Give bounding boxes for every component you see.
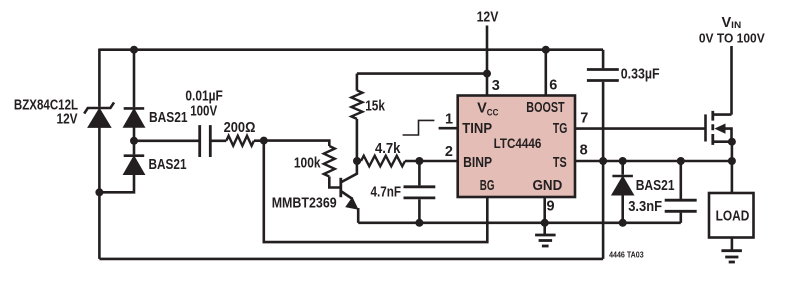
junction: BOOST to top rail <box>542 46 550 54</box>
transistor MMBT2369 <box>341 161 357 200</box>
svg-text:BAS21: BAS21 <box>149 157 187 173</box>
svg-text:LTC4446: LTC4446 <box>494 136 542 151</box>
gate bar <box>704 114 707 141</box>
svg-text:3: 3 <box>492 78 500 94</box>
wire BOOST pin6 stub <box>544 50 547 96</box>
wire mid node to 0.01uF <box>134 140 200 143</box>
svg-text:GND: GND <box>533 178 563 194</box>
wire BAS21 D2 stub top <box>133 141 136 155</box>
ground symbol (LOAD) <box>721 251 742 262</box>
svg-text:VIN: VIN <box>722 15 742 31</box>
transistor Q1: MOSFET <box>706 111 732 145</box>
svg-text:TINP: TINP <box>462 121 492 137</box>
node B: 200ohm / 100k / BG <box>260 137 268 145</box>
wire MOSFET source to TS <box>731 142 734 161</box>
wire left vertical (zener to bottom node) <box>98 126 101 192</box>
junction: 3.3nF to TS line <box>677 157 685 165</box>
svg-text:0.01µF: 0.01µF <box>185 88 223 104</box>
junction: 4.7k / 4.7nF / BINP <box>415 157 423 165</box>
junction: 4.7nF bottom to ground line <box>415 219 423 227</box>
wire LOAD top stub <box>731 161 734 193</box>
node A: between BAS21 diodes to 0.01uF <box>130 137 138 145</box>
junction: zener anode / D2 anode <box>95 188 103 196</box>
step waveform symbol (TINP input) <box>403 120 435 135</box>
capacitor 0.33uF <box>587 70 619 81</box>
wire 3.3nF bottom stub <box>679 213 682 223</box>
MOSFET body arrowhead <box>714 124 725 134</box>
svg-text:100k: 100k <box>294 155 321 171</box>
wire BAS21 D3 bottom stub <box>621 194 624 223</box>
junction: 15k / 4.7k / collector <box>353 157 361 165</box>
resistor 200ohm <box>226 136 254 146</box>
svg-text:0.33µF: 0.33µF <box>621 67 660 83</box>
junction: MOSFET source tab <box>728 138 736 146</box>
wire right vertical (0.33uF / TS / bottom) <box>602 50 605 259</box>
resistor 4.7k <box>361 156 405 167</box>
LOAD box <box>709 193 754 238</box>
svg-text:BAS21: BAS21 <box>636 178 675 194</box>
resistor 100k <box>324 146 335 177</box>
junction: D3 cathode to TS line <box>619 157 627 165</box>
svg-text:200Ω: 200Ω <box>224 120 256 136</box>
wire 4.7k left stub <box>357 160 361 163</box>
svg-text:2: 2 <box>445 144 453 160</box>
IC U1 LTC4446 body <box>458 96 575 198</box>
body connection <box>723 129 732 142</box>
wire left vertical bottom <box>98 192 101 259</box>
wire node to 100k corner <box>264 141 330 146</box>
IC pin texts <box>462 100 567 194</box>
wire 4.7nF top stub <box>418 161 421 185</box>
label BZX84C12L 12V <box>14 98 78 128</box>
wire 100k bottom to base <box>329 177 339 188</box>
svg-text:BINP: BINP <box>463 155 492 171</box>
svg-text:BOOST: BOOST <box>526 100 564 116</box>
svg-text:4.7nF: 4.7nF <box>371 184 402 200</box>
wire 200ohm to node <box>254 139 264 142</box>
wire BG return <box>264 141 488 243</box>
label 0.01uF 100V <box>185 88 223 119</box>
svg-text:8: 8 <box>580 143 588 159</box>
junction: 12V / VCC / second rail <box>483 70 491 78</box>
svg-text:MMBT2369: MMBT2369 <box>272 196 337 212</box>
diode BAS21 D3 <box>612 176 633 194</box>
wire ground line <box>358 222 681 225</box>
junction: 0.33uF branch to TS line <box>599 157 607 165</box>
emitter arrowhead <box>346 198 357 209</box>
wire BAS21 D1 stub top <box>133 50 136 107</box>
wire 3.3nF top stub <box>679 161 682 199</box>
wire BAS21 D2 bottom L to left rail <box>99 173 134 192</box>
svg-text:BG: BG <box>480 178 495 194</box>
svg-text:12V: 12V <box>57 112 78 128</box>
svg-text:TG: TG <box>553 121 568 137</box>
wire second rail (15k top to VCC node) <box>357 74 487 91</box>
VIN label <box>699 15 765 46</box>
wire left vertical (zener branch top) <box>98 49 101 107</box>
svg-text:4446 TA03: 4446 TA03 <box>609 251 644 260</box>
zener diode BZX84C12L <box>84 102 114 126</box>
drain tab <box>713 113 732 116</box>
wire 15k bottom to collector node <box>356 119 359 161</box>
ground symbol (GND pin) <box>535 223 556 246</box>
svg-text:4.7k: 4.7k <box>375 141 401 157</box>
source tab <box>713 140 732 143</box>
wire TG line pin7 <box>575 127 706 130</box>
svg-text:BAS21: BAS21 <box>149 110 188 126</box>
capacitor 0.01uF 100V <box>200 125 211 157</box>
wire 12V vertical to VCC pin3 <box>486 26 489 96</box>
junction: D1 cathode to top rail <box>130 46 138 54</box>
capacitor 3.3nF <box>665 200 697 211</box>
wire VIN vertical / MOSFET drain <box>730 46 733 115</box>
junction: D3 anode to ground line <box>619 219 627 227</box>
wire TINP pin1 stub <box>439 127 458 130</box>
wire emitter to ground line <box>357 208 360 223</box>
wire 4.7nF bottom stub <box>418 199 421 223</box>
diode BAS21 D1 <box>124 108 145 126</box>
svg-text:15k: 15k <box>365 99 385 115</box>
diode BAS21 D2 <box>124 156 145 174</box>
capacitor 4.7nF <box>404 187 436 198</box>
wire 0.01uF to 200ohm <box>210 140 226 143</box>
resistor 15k <box>351 90 362 119</box>
svg-text:9: 9 <box>547 199 555 215</box>
junction: GND pin to ground line <box>541 219 549 227</box>
wire 4.7k right to BINP <box>405 160 458 163</box>
wire LOAD bottom stem <box>731 238 734 251</box>
wire GND pin9 stub <box>543 197 546 223</box>
svg-text:0V TO 100V: 0V TO 100V <box>699 31 765 46</box>
wire BAS21 D3 top stub <box>621 161 624 175</box>
channel segments <box>711 111 714 145</box>
svg-text:1: 1 <box>445 112 453 128</box>
svg-text:7: 7 <box>580 111 588 127</box>
wire bottom rail <box>99 258 603 261</box>
svg-text:LOAD: LOAD <box>716 209 750 225</box>
svg-text:6: 6 <box>549 78 557 94</box>
junction: LOAD / source to TS line <box>728 157 736 165</box>
svg-text:12V: 12V <box>477 10 499 26</box>
svg-text:3.3nF: 3.3nF <box>628 199 662 215</box>
wire TS line pin8 <box>575 160 732 163</box>
wire BAS21 D1 to mid node <box>133 126 136 141</box>
svg-text:100V: 100V <box>190 104 217 120</box>
svg-text:TS: TS <box>553 155 567 171</box>
pin numbers <box>445 78 588 215</box>
wire top rail <box>99 48 603 51</box>
